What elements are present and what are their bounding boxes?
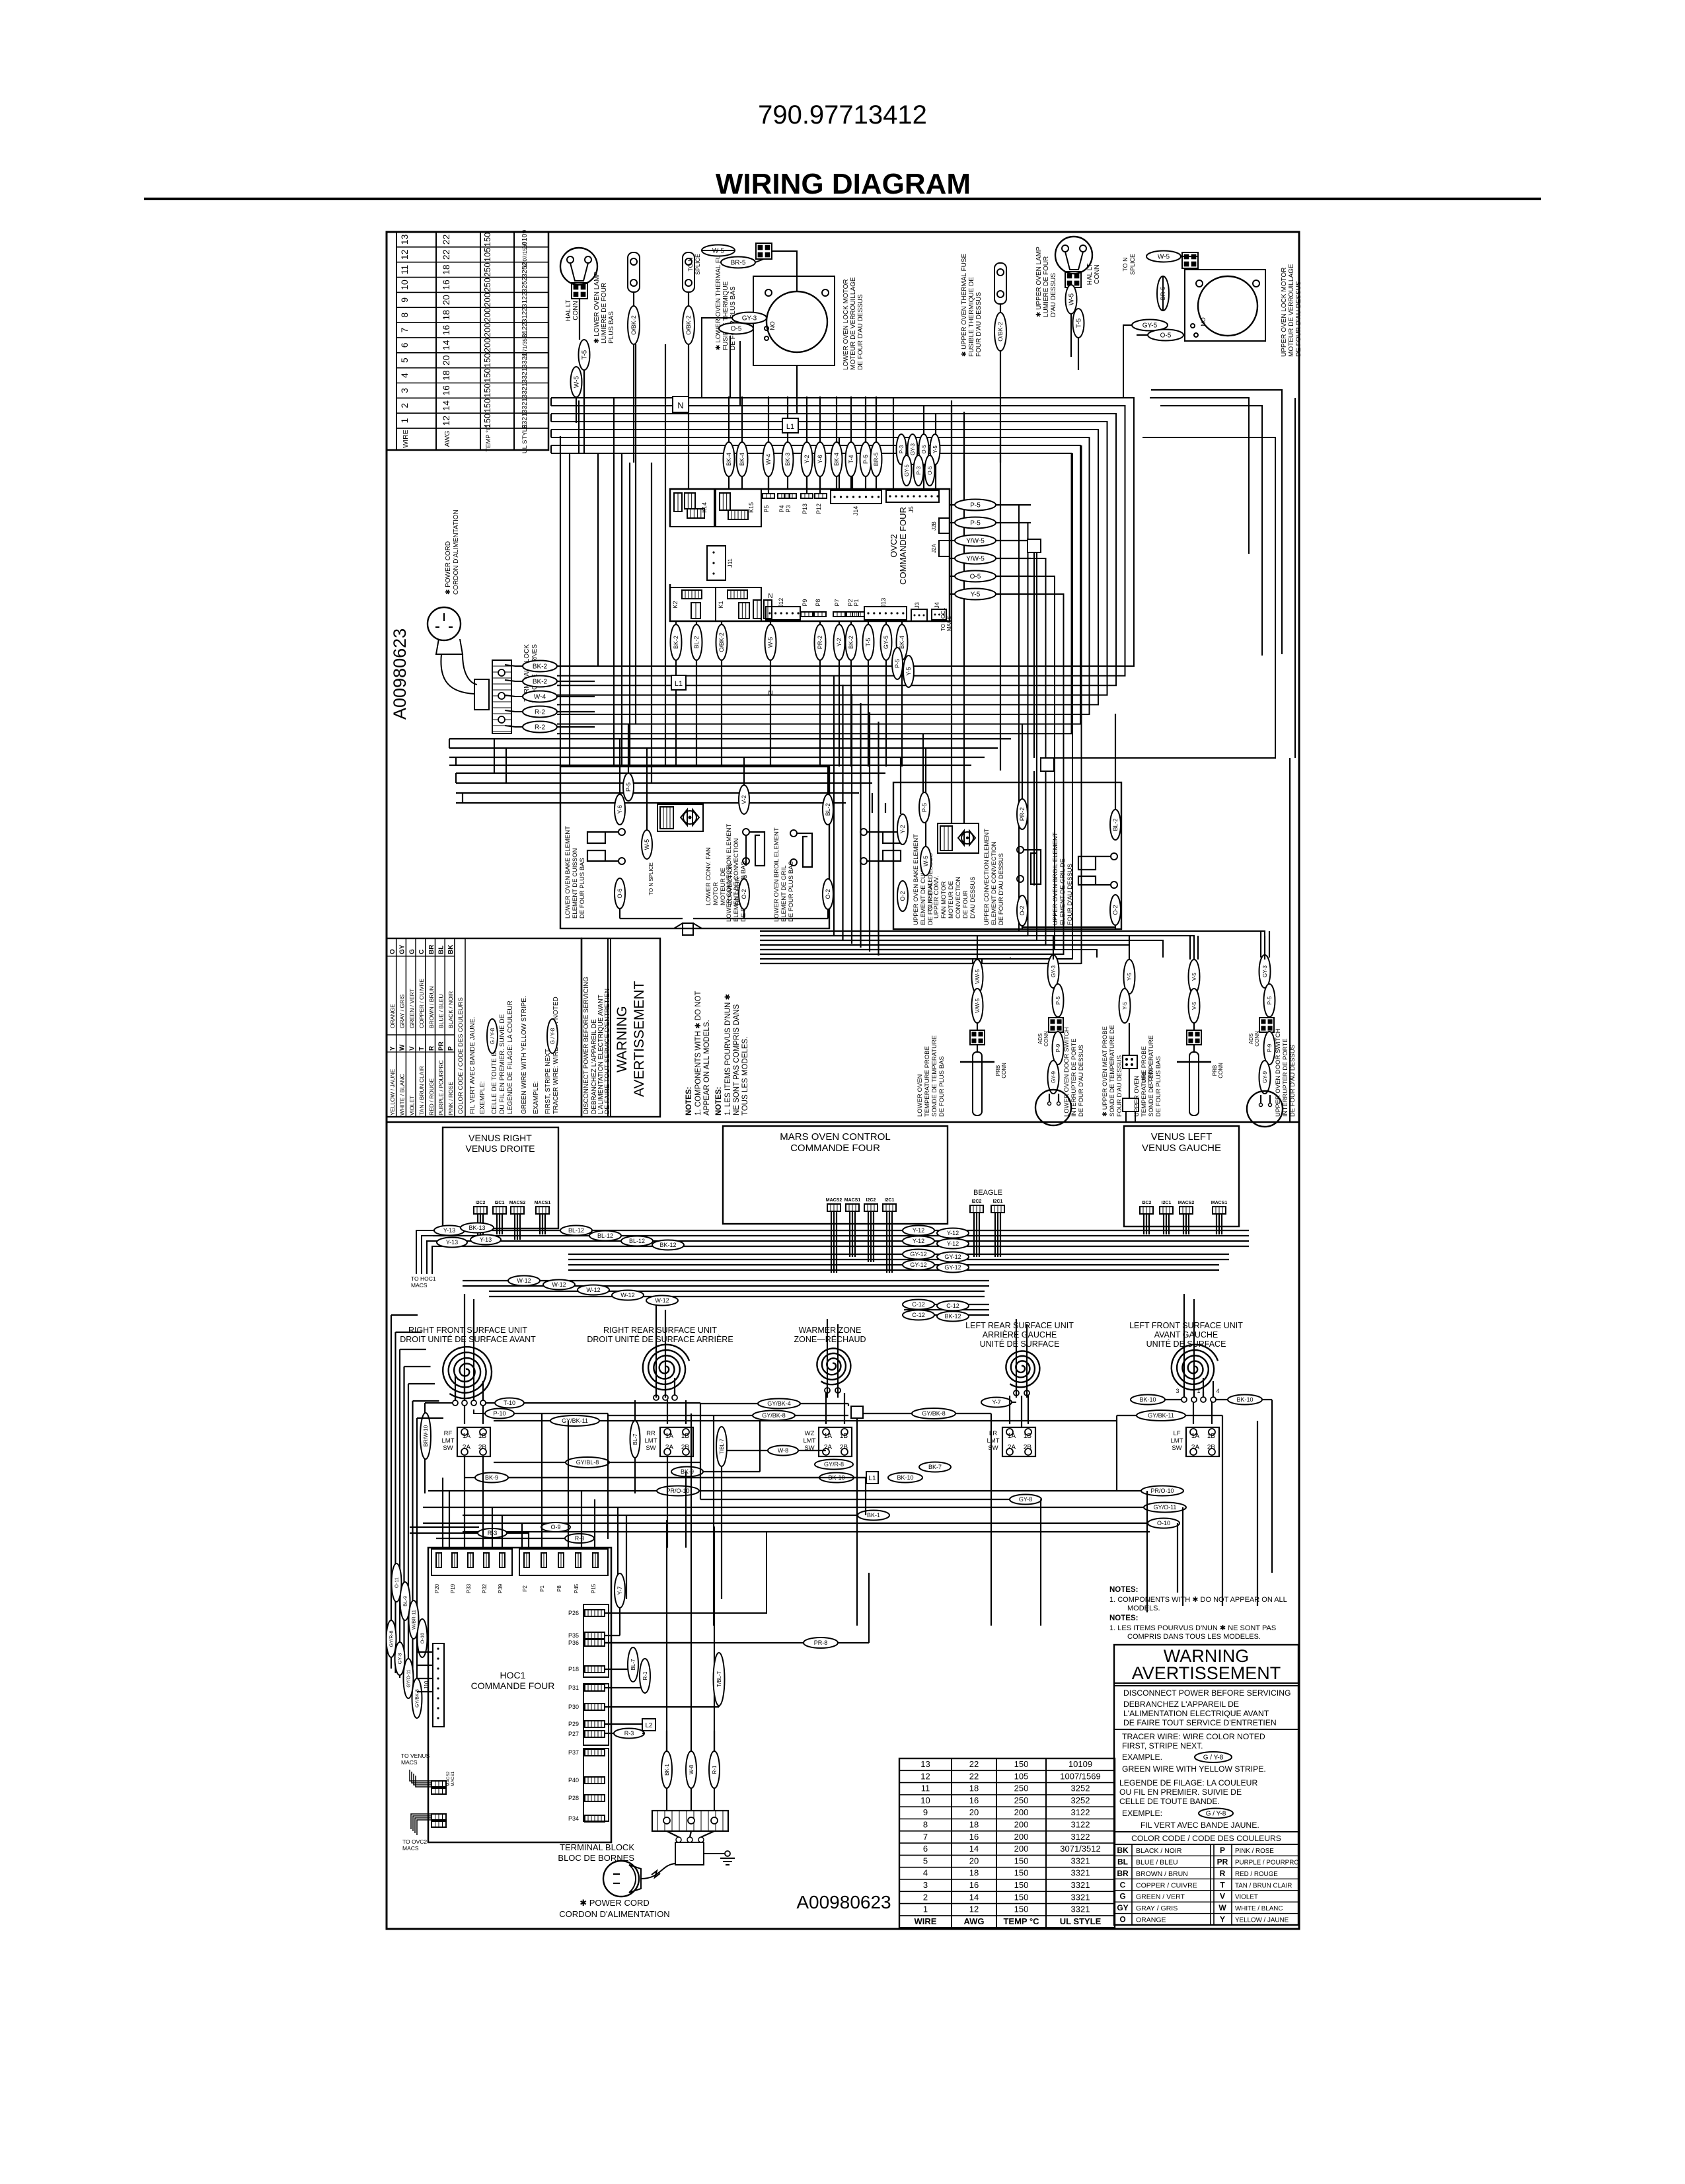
svg-text:SW: SW xyxy=(988,1445,998,1452)
svg-text:COMMANDE FOUR: COMMANDE FOUR xyxy=(898,507,908,585)
svg-text:G / Y-8: G / Y-8 xyxy=(1206,1811,1226,1818)
svg-text:3321: 3321 xyxy=(1071,1856,1090,1865)
svg-text:O-10: O-10 xyxy=(420,1633,426,1644)
svg-text:MACS: MACS xyxy=(946,616,952,631)
svg-text:GY-3: GY-3 xyxy=(910,443,916,455)
svg-text:G / Y-8: G / Y-8 xyxy=(550,1028,556,1044)
svg-text:LUMIERE DE FOUR: LUMIERE DE FOUR xyxy=(1043,256,1050,317)
svg-text:Y-6: Y-6 xyxy=(617,805,623,813)
svg-text:BL: BL xyxy=(1117,1857,1128,1866)
svg-text:NOTES:: NOTES: xyxy=(685,1087,693,1115)
svg-text:L1: L1 xyxy=(786,423,794,431)
svg-text:PLUS BAS: PLUS BAS xyxy=(608,311,615,344)
svg-text:LEFT REAR SURFACE UNIT: LEFT REAR SURFACE UNIT xyxy=(965,1321,1074,1330)
svg-text:AVERTISSEMENT: AVERTISSEMENT xyxy=(632,981,647,1097)
svg-text:5: 5 xyxy=(923,1856,928,1865)
svg-text:T-5: T-5 xyxy=(581,350,589,359)
svg-text:Y-12: Y-12 xyxy=(913,1238,924,1244)
svg-text:J13: J13 xyxy=(880,598,887,608)
motor UPPER OVEN LOCK MOTOR xyxy=(1185,270,1265,341)
svg-text:250: 250 xyxy=(482,262,492,277)
connector J4 xyxy=(932,609,946,620)
svg-text:P-3: P-3 xyxy=(916,466,922,474)
svg-text:INTERRUPTER DE PORTE: INTERRUPTER DE PORTE xyxy=(1282,1038,1289,1117)
svg-text:✱ LOWER OVEN LAMP: ✱ LOWER OVEN LAMP xyxy=(593,272,601,344)
svg-text:✱ POWER CORD: ✱ POWER CORD xyxy=(580,1898,650,1908)
svg-text:PR-8: PR-8 xyxy=(814,1639,828,1646)
svg-text:W-5: W-5 xyxy=(1068,293,1076,305)
wire label T/BL-7 (hoc) xyxy=(714,1653,725,1706)
svg-text:MACS1: MACS1 xyxy=(1211,1201,1228,1205)
svg-text:VENUS GAUCHE: VENUS GAUCHE xyxy=(1142,1143,1221,1154)
svg-text:A00980623: A00980623 xyxy=(796,1892,891,1912)
svg-text:P20: P20 xyxy=(434,1583,440,1593)
svg-text:ELEMENT DE GRIL: ELEMENT DE GRIL xyxy=(780,866,788,922)
svg-text:150: 150 xyxy=(1014,1904,1029,1914)
heater LOWER OVEN BAKE ELEMENT xyxy=(618,829,625,835)
svg-text:BL-7: BL-7 xyxy=(630,1659,636,1670)
svg-text:W-5: W-5 xyxy=(922,856,929,866)
svg-text:3: 3 xyxy=(1176,1388,1179,1394)
svg-text:SONDE DE TEMPERATURE: SONDE DE TEMPERATURE xyxy=(1148,1036,1155,1117)
svg-text:14: 14 xyxy=(969,1892,979,1902)
wire label GY/R-8 xyxy=(815,1460,853,1470)
connector splice conn xyxy=(1182,252,1198,268)
svg-text:OU FIL EN PREMIER. SUIVIE: OU FIL EN PREMIER. SUIVIE DE xyxy=(1119,1788,1242,1797)
svg-text:P31: P31 xyxy=(568,1684,579,1691)
svg-text:10: 10 xyxy=(399,280,410,290)
svg-text:C: C xyxy=(418,950,426,954)
svg-text:13: 13 xyxy=(399,234,410,245)
svg-text:BK-10: BK-10 xyxy=(1236,1396,1253,1403)
ground symbol xyxy=(704,1853,725,1854)
svg-text:W/BR-11: W/BR-11 xyxy=(411,1610,417,1630)
wire labels right of OVC2 board xyxy=(955,500,996,511)
svg-text:BK-2: BK-2 xyxy=(533,679,548,686)
svg-text:O-6: O-6 xyxy=(617,888,623,898)
svg-text:P15: P15 xyxy=(591,1583,597,1593)
svg-text:P30: P30 xyxy=(568,1704,579,1710)
wire bus upper verticals xyxy=(560,436,561,767)
svg-text:P-9: P-9 xyxy=(1267,1043,1273,1052)
connector HOC1 top row 1 xyxy=(431,1549,512,1575)
svg-text:TO OVC2: TO OVC2 xyxy=(402,1838,427,1845)
probe UPPER OVEN MEAT PROBE xyxy=(1124,960,1135,994)
board VENUS LEFT xyxy=(1124,1126,1239,1226)
svg-text:DROIT UNITÉ DE SURFACE ARRIÈRE: DROIT UNITÉ DE SURFACE ARRIÈRE xyxy=(587,1334,733,1344)
svg-text:L1: L1 xyxy=(868,1475,876,1482)
svg-text:W-5: W-5 xyxy=(644,839,650,850)
svg-text:J11: J11 xyxy=(727,558,733,568)
wire label O-2 (broil) xyxy=(823,879,833,909)
svg-text:150: 150 xyxy=(1014,1892,1029,1902)
wire label R-1 (hoc) xyxy=(640,1659,650,1693)
svg-text:V/W-5: V/W-5 xyxy=(975,969,981,984)
svg-text:11: 11 xyxy=(399,265,410,275)
svg-text:AWG: AWG xyxy=(443,431,451,447)
connector lock motor conn xyxy=(756,243,772,259)
svg-text:COLOR CODE / CODE DES COULEURS: COLOR CODE / CODE DES COULEURS xyxy=(457,997,465,1114)
svg-text:BK-2: BK-2 xyxy=(533,663,548,671)
wire label BK-10 (wz right) xyxy=(888,1473,922,1483)
wire label O/BK-2 xyxy=(628,306,640,344)
svg-text:W-5: W-5 xyxy=(767,637,774,648)
fuse LOWER OVEN THERMAL FUSE F2 xyxy=(683,252,694,292)
svg-text:WIRE: WIRE xyxy=(915,1916,937,1926)
svg-text:18: 18 xyxy=(969,1868,979,1878)
svg-text:3122: 3122 xyxy=(1071,1820,1090,1830)
svg-text:VIOLET: VIOLET xyxy=(1235,1894,1258,1901)
svg-text:MACS2: MACS2 xyxy=(509,1201,526,1205)
svg-text:W: W xyxy=(399,1044,406,1051)
svg-text:GY-8: GY-8 xyxy=(397,1653,403,1665)
svg-text:R-2: R-2 xyxy=(535,709,546,716)
svg-text:P5: P5 xyxy=(763,505,770,512)
wire label W-8 xyxy=(768,1446,798,1456)
svg-text:L1: L1 xyxy=(675,680,683,688)
svg-text:PURPLE / POURPRC: PURPLE / POURPRC xyxy=(438,1060,445,1115)
wire label T-5 (upper lamp) xyxy=(1073,309,1084,338)
svg-text:8: 8 xyxy=(923,1820,928,1830)
svg-text:P3: P3 xyxy=(785,505,792,512)
svg-text:3: 3 xyxy=(923,1880,928,1890)
diagram border frame xyxy=(387,232,1299,1929)
svg-text:O/BK-2: O/BK-2 xyxy=(630,315,637,335)
svg-text:O-2: O-2 xyxy=(1019,905,1026,915)
wire verticals lower xyxy=(464,1456,465,1548)
svg-text:BK-7: BK-7 xyxy=(928,1464,942,1470)
svg-text:200: 200 xyxy=(482,323,492,338)
svg-text:MODELS.: MODELS. xyxy=(1127,1604,1160,1612)
svg-text:3: 3 xyxy=(399,388,410,393)
svg-text:P-9: P-9 xyxy=(1055,1043,1061,1052)
svg-text:C-12: C-12 xyxy=(946,1302,959,1309)
svg-text:3252: 3252 xyxy=(1071,1784,1090,1793)
heater UPPER OVEN BROIL ELEMENT xyxy=(1111,853,1117,860)
svg-text:O-5: O-5 xyxy=(927,466,933,475)
svg-text:GY-5: GY-5 xyxy=(1142,322,1158,330)
svg-text:TRACER WIRE: WIRE COLOR NOTED: TRACER WIRE: WIRE COLOR NOTED xyxy=(552,997,560,1114)
wire bus H2b xyxy=(456,772,885,774)
wire lamp leads xyxy=(579,299,580,340)
svg-text:LEGENDE DE FILAGE: LA COULEUR: LEGENDE DE FILAGE: LA COULEUR xyxy=(1119,1778,1257,1788)
svg-text:K1: K1 xyxy=(718,601,724,608)
svg-text:ORANGE: ORANGE xyxy=(1136,1916,1166,1924)
svg-text:UPPER CONVECTION ELEMENT: UPPER CONVECTION ELEMENT xyxy=(983,829,991,925)
wire bus H2 xyxy=(449,738,1011,739)
surface coil RIGHT FRONT xyxy=(443,1347,492,1398)
svg-text:P: P xyxy=(447,1046,455,1051)
svg-text:TAN / BRUN CLAIR: TAN / BRUN CLAIR xyxy=(1235,1882,1292,1889)
svg-text:BK-13: BK-13 xyxy=(468,1224,485,1231)
svg-text:GY: GY xyxy=(1117,1903,1128,1912)
svg-text:W-12: W-12 xyxy=(552,1281,566,1288)
svg-text:12: 12 xyxy=(920,1771,930,1781)
wire labels middle bus left xyxy=(434,1226,465,1236)
wire bus C-loops xyxy=(551,398,1134,666)
wire label W-5 (splice) xyxy=(1146,251,1181,262)
svg-text:P36: P36 xyxy=(568,1639,579,1646)
svg-text:DE FOUR D'AU DESSUS: DE FOUR D'AU DESSUS xyxy=(1078,1045,1085,1117)
svg-text:200: 200 xyxy=(1014,1807,1029,1817)
svg-text:HOC1: HOC1 xyxy=(500,1670,526,1680)
svg-text:BK: BK xyxy=(1117,1846,1129,1855)
svg-text:3321: 3321 xyxy=(1071,1868,1090,1878)
svg-text:NOTES:: NOTES: xyxy=(1109,1586,1138,1594)
svg-text:UPPER OVEN LOCK MOTOR: UPPER OVEN LOCK MOTOR xyxy=(1281,268,1288,357)
svg-text:UPPER OVEN BAKE ELEMENT: UPPER OVEN BAKE ELEMENT xyxy=(913,834,920,925)
wire label O-5 xyxy=(719,323,753,334)
svg-text:O-5: O-5 xyxy=(921,445,927,454)
svg-text:Y: Y xyxy=(389,1046,396,1051)
svg-text:3122: 3122 xyxy=(1071,1807,1090,1817)
svg-text:P-5: P-5 xyxy=(970,502,981,509)
svg-text:GY-3: GY-3 xyxy=(1262,965,1268,977)
svg-text:ELEMENT DE GRIL DE: ELEMENT DE GRIL DE xyxy=(1059,858,1067,925)
svg-text:PINK / ROSE: PINK / ROSE xyxy=(1235,1848,1274,1855)
svg-text:WARMER ZONE: WARMER ZONE xyxy=(799,1326,862,1335)
connector J13 xyxy=(864,607,907,620)
lamp LOWER OVEN LAMP xyxy=(560,248,597,285)
svg-text:BLUE / BLEU: BLUE / BLEU xyxy=(438,995,445,1029)
svg-text:ELEMENT DE CONVECTION: ELEMENT DE CONVECTION xyxy=(991,841,998,925)
svg-text:16: 16 xyxy=(969,1795,979,1805)
svg-text:C-12: C-12 xyxy=(912,1301,925,1308)
svg-text:Y: Y xyxy=(1220,1915,1225,1924)
svg-text:150: 150 xyxy=(1014,1868,1029,1878)
svg-text:200: 200 xyxy=(1014,1820,1029,1830)
svg-text:3321: 3321 xyxy=(521,352,529,368)
svg-text:BL-12: BL-12 xyxy=(568,1227,584,1234)
svg-text:P28: P28 xyxy=(568,1795,579,1801)
svg-text:BK-4: BK-4 xyxy=(833,453,840,466)
svg-text:ARRIÈRE GAUCHE: ARRIÈRE GAUCHE xyxy=(983,1330,1057,1339)
svg-text:P-10: P-10 xyxy=(493,1410,505,1417)
wire labels middle bus W-12 xyxy=(508,1276,540,1286)
svg-text:COMMANDE FOUR: COMMANDE FOUR xyxy=(790,1143,880,1154)
svg-text:O/BK-2: O/BK-2 xyxy=(997,322,1004,342)
svg-text:P-5: P-5 xyxy=(1055,996,1061,1004)
svg-text:V-5: V-5 xyxy=(1191,972,1197,981)
svg-text:P40: P40 xyxy=(568,1777,579,1784)
svg-text:P-5: P-5 xyxy=(862,455,869,464)
motor LOWER CONV FAN MOTOR xyxy=(657,804,703,831)
surface coil LEFT FRONT xyxy=(1172,1345,1218,1390)
pins HOC1 right side xyxy=(585,1610,605,1616)
svg-text:3122: 3122 xyxy=(521,292,529,308)
svg-text:P-5: P-5 xyxy=(625,782,632,792)
connector J10 xyxy=(433,1643,444,1727)
wire labels right of J5 xyxy=(897,434,907,465)
svg-text:14: 14 xyxy=(969,1844,979,1854)
svg-text:20: 20 xyxy=(441,295,451,305)
svg-text:10: 10 xyxy=(920,1795,930,1805)
svg-text:RIGHT FRONT SURFACE UNIT: RIGHT FRONT SURFACE UNIT xyxy=(408,1326,527,1335)
svg-text:CONN: CONN xyxy=(1001,1063,1007,1078)
svg-text:PURPLE / POURPRC: PURPLE / POURPRC xyxy=(1235,1859,1298,1866)
node splice sq right xyxy=(1028,539,1041,552)
svg-text:T-4: T-4 xyxy=(848,455,854,463)
svg-text:22: 22 xyxy=(441,249,451,260)
svg-text:BL-12: BL-12 xyxy=(629,1238,645,1244)
svg-text:GY: GY xyxy=(399,944,406,954)
svg-text:CORDON D'ALIMENTATION: CORDON D'ALIMENTATION xyxy=(559,1909,669,1919)
limit switch LF LMT SW xyxy=(1186,1427,1219,1456)
wire element bottom joins xyxy=(619,909,620,919)
wire label Y-7 xyxy=(981,1398,1012,1408)
svg-text:R-2: R-2 xyxy=(535,724,546,732)
svg-text:12: 12 xyxy=(399,249,410,260)
svg-text:6: 6 xyxy=(399,342,410,348)
svg-text:22: 22 xyxy=(441,234,451,245)
svg-text:BL-2: BL-2 xyxy=(825,803,831,815)
surface coil LEFT REAR xyxy=(1006,1351,1039,1388)
svg-text:3252: 3252 xyxy=(521,277,529,293)
svg-text:YELLOW / JAUNE: YELLOW / JAUNE xyxy=(389,1069,396,1115)
svg-text:16: 16 xyxy=(969,1880,979,1890)
svg-text:ADS: ADS xyxy=(1248,1034,1254,1044)
svg-text:BL-12: BL-12 xyxy=(597,1232,613,1239)
svg-text:P32: P32 xyxy=(482,1583,488,1593)
svg-text:P35: P35 xyxy=(568,1632,579,1639)
heater UPPER CONVECTION ELEMENT xyxy=(1017,847,1024,853)
wire label W-5 xyxy=(571,367,582,397)
svg-text:T-5: T-5 xyxy=(865,638,872,646)
svg-text:BROWN / BRUN: BROWN / BRUN xyxy=(1136,1870,1188,1878)
svg-text:DE FOUR PLUS BAS: DE FOUR PLUS BAS xyxy=(1155,1056,1162,1117)
svg-text:PR-2: PR-2 xyxy=(1019,808,1026,821)
svg-text:W: W xyxy=(1218,1903,1226,1912)
svg-text:BL-7: BL-7 xyxy=(632,1433,638,1445)
terminal block body xyxy=(675,1842,704,1865)
svg-text:I2C1: I2C1 xyxy=(885,1198,895,1203)
power cord plug (lower) xyxy=(603,1861,639,1897)
svg-text:MACS1: MACS1 xyxy=(535,1201,551,1205)
svg-text:14: 14 xyxy=(441,340,451,350)
svg-text:1: 1 xyxy=(923,1904,928,1914)
svg-text:9: 9 xyxy=(923,1807,928,1817)
wire labels lower right xyxy=(1141,1486,1183,1496)
svg-text:SONDE DE TEMPERATURE: SONDE DE TEMPERATURE xyxy=(931,1036,938,1117)
svg-text:W-8: W-8 xyxy=(689,1764,694,1774)
svg-text:LF: LF xyxy=(1173,1430,1180,1437)
svg-text:FUSIBLE THERMIQUE DE: FUSIBLE THERMIQUE DE xyxy=(968,277,975,357)
svg-text:250: 250 xyxy=(1014,1784,1029,1793)
svg-text:RED / ROUGE: RED / ROUGE xyxy=(1235,1871,1278,1878)
svg-text:O/BK-2: O/BK-2 xyxy=(718,632,725,652)
splice node warmer xyxy=(851,1406,863,1418)
svg-text:CONN: CONN xyxy=(1218,1063,1224,1078)
svg-text:VENUS RIGHT: VENUS RIGHT xyxy=(468,1133,532,1143)
svg-text:150: 150 xyxy=(482,233,492,247)
svg-text:GY/O-11: GY/O-11 xyxy=(1154,1504,1177,1511)
wire labels above OVC2 board xyxy=(724,442,735,476)
wire label T-10 xyxy=(495,1398,524,1408)
svg-text:GY/O-11: GY/O-11 xyxy=(407,1669,412,1687)
svg-text:1. LES ITEMS POURVUS D'NU: 1. LES ITEMS POURVUS D'NUN ✱ NE SONT PAS xyxy=(1109,1624,1276,1632)
svg-text:T: T xyxy=(418,1047,426,1051)
svg-text:SONDE DE TEMPERATURE DE: SONDE DE TEMPERATURE DE xyxy=(1109,1025,1116,1117)
limit switch LR LMT SW xyxy=(1002,1427,1035,1456)
power cord plug (upper) xyxy=(428,607,461,640)
svg-text:EXAMPLE.: EXAMPLE. xyxy=(1122,1752,1162,1762)
svg-text:D'AU DESSUS: D'AU DESSUS xyxy=(1050,273,1057,317)
wire bus lower horizontals xyxy=(760,1420,1117,1421)
svg-text:LMT: LMT xyxy=(645,1437,657,1445)
svg-text:BR-5: BR-5 xyxy=(731,260,746,267)
svg-text:GY/BK-11: GY/BK-11 xyxy=(562,1417,588,1424)
enclosure lower oven elements box xyxy=(560,767,829,928)
svg-text:VENUS LEFT: VENUS LEFT xyxy=(1151,1131,1213,1143)
svg-text:I2C2: I2C2 xyxy=(972,1199,982,1204)
svg-text:TO N: TO N xyxy=(687,257,694,271)
svg-text:N: N xyxy=(677,400,683,410)
svg-text:O-2: O-2 xyxy=(1112,905,1119,915)
limit switch RR LMT SW xyxy=(660,1427,693,1456)
svg-text:V-5: V-5 xyxy=(1191,1001,1197,1010)
svg-text:WIRING DIAGRAM: WIRING DIAGRAM xyxy=(716,168,971,200)
wire probe drops xyxy=(977,936,978,960)
svg-text:16: 16 xyxy=(441,280,451,290)
svg-text:Y/W-5: Y/W-5 xyxy=(966,556,985,563)
svg-text:3071/3512: 3071/3512 xyxy=(1060,1844,1100,1854)
svg-text:W-12: W-12 xyxy=(517,1277,531,1284)
svg-text:BK-4: BK-4 xyxy=(739,453,745,466)
svg-text:J12: J12 xyxy=(778,598,784,608)
svg-text:SW: SW xyxy=(646,1445,655,1452)
svg-text:WHITE / BLANC: WHITE / BLANC xyxy=(399,1074,406,1115)
relay K1 xyxy=(716,587,761,621)
svg-text:200: 200 xyxy=(482,308,492,322)
svg-text:Y-5: Y-5 xyxy=(932,445,938,453)
svg-text:V: V xyxy=(1220,1892,1225,1901)
svg-text:790.97713412: 790.97713412 xyxy=(758,100,927,130)
wire bus H0 risers xyxy=(730,336,731,398)
svg-text:O: O xyxy=(389,949,396,954)
svg-text:O-5: O-5 xyxy=(970,574,981,581)
svg-text:16: 16 xyxy=(441,385,451,396)
svg-text:R-1: R-1 xyxy=(642,1671,648,1680)
warning box (bottom right) xyxy=(1114,1645,1298,1925)
svg-text:2: 2 xyxy=(399,403,410,408)
limit switch RF LMT SW xyxy=(457,1427,490,1456)
svg-text:COPPER / CUIVRE: COPPER / CUIVRE xyxy=(1136,1881,1197,1889)
svg-text:UPPER OVEN: UPPER OVEN xyxy=(1133,1076,1141,1117)
svg-text:K2: K2 xyxy=(672,601,679,608)
wire label O-5 (upper) xyxy=(1148,330,1183,341)
svg-text:150: 150 xyxy=(482,353,492,367)
svg-text:W-5: W-5 xyxy=(574,375,581,388)
svg-text:10109: 10109 xyxy=(1068,1759,1092,1769)
svg-text:C-12: C-12 xyxy=(912,1312,925,1318)
heater LOWER CONVECTION ELEMENT xyxy=(743,829,749,835)
svg-text:105: 105 xyxy=(482,247,492,262)
wire label O-2 (upper conv) xyxy=(1017,895,1028,926)
wire verticals lower extra xyxy=(442,1478,443,1548)
svg-text:12: 12 xyxy=(441,416,451,426)
svg-text:16: 16 xyxy=(969,1832,979,1842)
svg-text:P26: P26 xyxy=(568,1610,579,1616)
svg-text:GY/R-8: GY/R-8 xyxy=(389,1630,394,1647)
svg-text:MACS1: MACS1 xyxy=(451,1771,455,1786)
wire label O-2 (conv) xyxy=(739,879,749,909)
wire label Y-7 (hoc) xyxy=(615,1573,625,1608)
svg-text:W-8: W-8 xyxy=(778,1447,788,1454)
svg-text:P7: P7 xyxy=(834,599,841,606)
wire bus middle xyxy=(433,1230,1249,1231)
svg-text:LOWER OVEN: LOWER OVEN xyxy=(917,1074,924,1117)
wire label BL-2 (upper broil) xyxy=(1110,810,1121,840)
